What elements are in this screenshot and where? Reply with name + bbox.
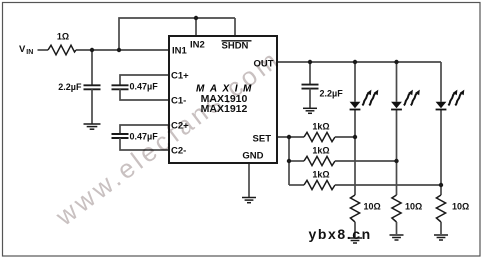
resistor R3 1k bbox=[304, 156, 335, 165]
node SET bbox=[287, 135, 291, 139]
node LED2/R3 bbox=[394, 159, 398, 163]
resistor R2 1k bbox=[304, 132, 335, 141]
wire R3 to LED2 bbox=[335, 160, 397, 162]
ground (output cap) bbox=[303, 108, 317, 113]
resistor R7 10ohm bbox=[436, 195, 445, 222]
capacitor C-in 2.2uF plates bbox=[84, 84, 101, 86]
wire OUT rail bbox=[277, 61, 441, 63]
resistor R5 10ohm bbox=[350, 195, 359, 222]
wire cap to ground bbox=[91, 89, 93, 123]
ground (R7) bbox=[434, 235, 448, 240]
node VIN/Cin bbox=[90, 48, 94, 52]
svg-text:IN: IN bbox=[26, 49, 33, 56]
wire top rail bbox=[119, 18, 235, 50]
node IN2 tap bbox=[194, 16, 198, 20]
svg-text:V: V bbox=[19, 44, 26, 55]
svg-text:0.47µF: 0.47µF bbox=[130, 82, 159, 92]
svg-text:GND: GND bbox=[242, 151, 263, 162]
resistor R4 1k bbox=[304, 180, 335, 189]
svg-text:IN1: IN1 bbox=[172, 46, 188, 57]
svg-text:C1-: C1- bbox=[171, 96, 186, 107]
LED D3 bbox=[436, 90, 465, 111]
capacitor C1 0.47uF plates bbox=[112, 84, 129, 86]
LED D3 column bbox=[440, 62, 442, 102]
wire C1+ bbox=[120, 75, 169, 85]
wire VIN to resistor bbox=[38, 49, 49, 51]
wire IN2 drop bbox=[195, 18, 197, 36]
SHDN overline bbox=[222, 40, 252, 42]
svg-text:1kΩ: 1kΩ bbox=[312, 170, 329, 180]
wire output cap drop bbox=[309, 62, 311, 85]
wire SET to node bbox=[277, 136, 304, 138]
svg-text:SET: SET bbox=[253, 134, 272, 145]
svg-text:SHDN: SHDN bbox=[222, 41, 249, 52]
wire row2 left bbox=[289, 160, 304, 162]
node VIN/rail bbox=[117, 48, 121, 52]
resistor R6 10ohm bbox=[392, 195, 401, 222]
wire C2+ bbox=[120, 125, 169, 134]
IC pin labels bbox=[171, 40, 274, 162]
wire R6 to ground bbox=[396, 222, 398, 234]
svg-text:10Ω: 10Ω bbox=[452, 202, 469, 212]
svg-text:1kΩ: 1kΩ bbox=[312, 122, 329, 132]
svg-text:1kΩ: 1kΩ bbox=[312, 146, 329, 156]
svg-text:2.2µF: 2.2µF bbox=[58, 82, 82, 92]
capacitor C-out 2.2uF plates bbox=[302, 84, 319, 86]
wire GND pin drop bbox=[248, 163, 250, 197]
wire SET vertical bbox=[288, 137, 290, 185]
wire input cap drop bbox=[91, 50, 93, 85]
LED D2 bbox=[391, 90, 420, 111]
node OUT/Cout bbox=[308, 60, 312, 64]
svg-text:C1+: C1+ bbox=[171, 71, 189, 82]
node OUT/LED1 bbox=[353, 60, 357, 64]
wire cap to ground bbox=[309, 89, 311, 108]
LED D2 column bbox=[396, 62, 398, 102]
capacitor C2 0.47uF plates bbox=[112, 133, 129, 135]
LED D1 column bbox=[354, 62, 356, 102]
wire R5 to ground bbox=[354, 222, 356, 237]
resistor R1 1ohm bbox=[48, 45, 76, 55]
wire resistor to IN1 bbox=[76, 49, 169, 51]
node SET row2 bbox=[287, 159, 291, 163]
wire R2 to LED1 bbox=[335, 136, 355, 138]
LED D1 bbox=[350, 90, 379, 111]
node LED3/R4 bbox=[439, 183, 443, 187]
wire SHDN drop bbox=[234, 18, 236, 36]
op-amp U1 MAX1910 IC body bbox=[169, 36, 277, 163]
ground (IC GND) bbox=[242, 198, 256, 203]
svg-text:10Ω: 10Ω bbox=[405, 202, 422, 212]
svg-text:ybx8.cn: ybx8.cn bbox=[309, 226, 372, 242]
ground (R5) bbox=[348, 238, 362, 243]
svg-text:2.2µF: 2.2µF bbox=[320, 89, 344, 99]
svg-text:10Ω: 10Ω bbox=[364, 202, 381, 212]
node OUT/LED2 bbox=[394, 60, 398, 64]
wire C2- bbox=[120, 138, 169, 150]
wire R7 to ground bbox=[440, 222, 442, 234]
ground (R6) bbox=[390, 235, 404, 240]
ground (input cap) bbox=[84, 124, 101, 129]
label VIN bbox=[19, 44, 33, 56]
wire R4 to LED3 bbox=[335, 184, 441, 186]
wire C1- bbox=[120, 89, 169, 100]
wire row3 left bbox=[289, 184, 304, 186]
node LED1/R2 bbox=[353, 135, 357, 139]
svg-text:IN2: IN2 bbox=[190, 40, 205, 51]
svg-text:1Ω: 1Ω bbox=[57, 32, 69, 42]
